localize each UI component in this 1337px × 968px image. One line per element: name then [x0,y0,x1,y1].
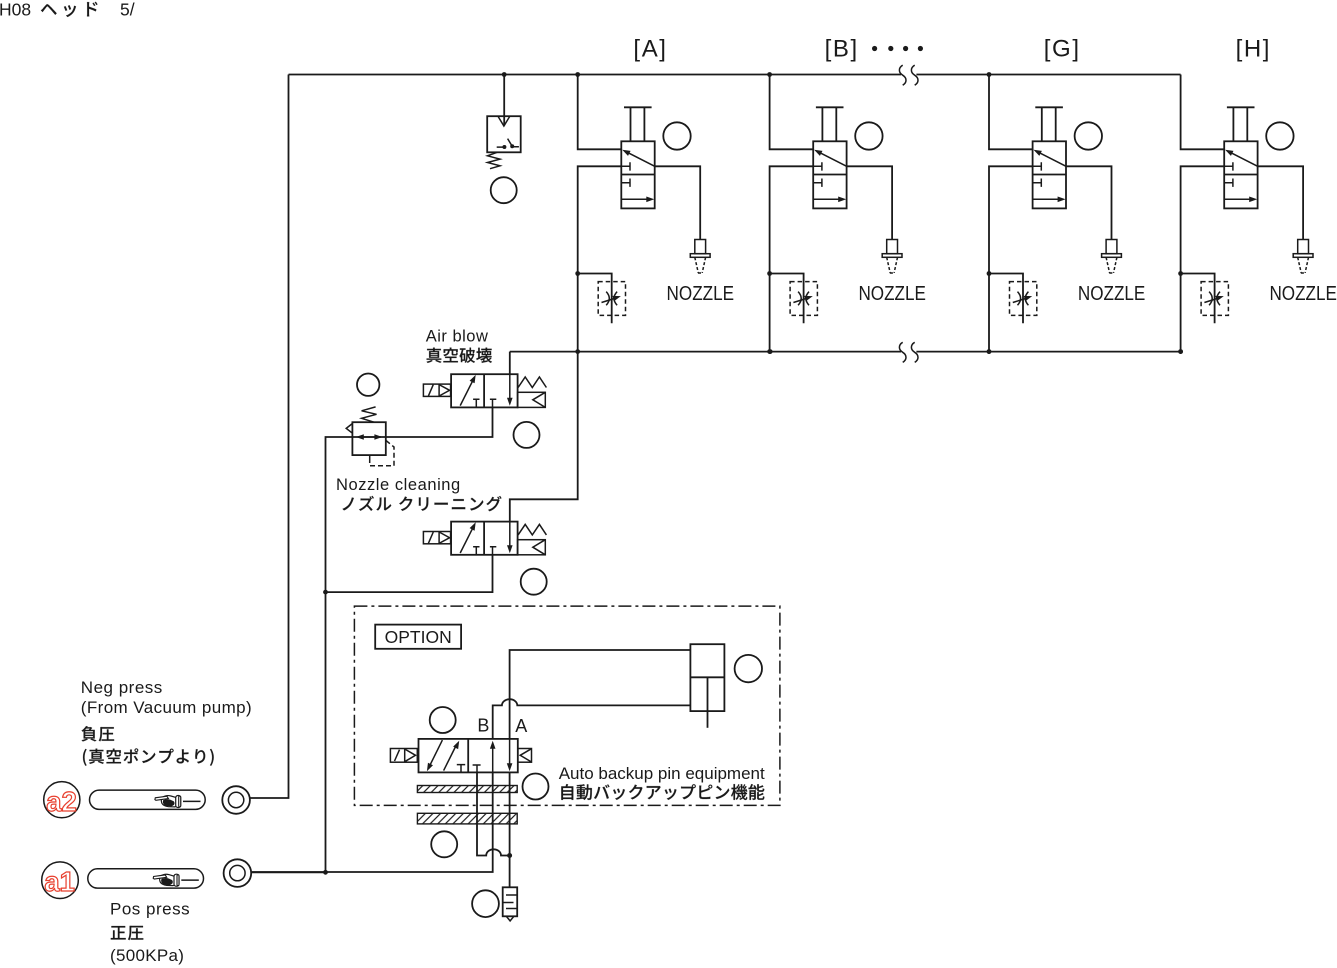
svg-text:[H]: [H] [1236,36,1271,63]
svg-text:a2: a2 [46,786,77,817]
svg-text:[B]: [B] [825,36,859,63]
svg-text:(From Vacuum pump): (From Vacuum pump) [81,698,252,717]
svg-text:a1: a1 [44,866,75,897]
svg-text:B: B [477,716,489,736]
svg-text:Neg press: Neg press [81,678,163,697]
svg-text:A: A [515,716,527,736]
svg-text:(500KPa): (500KPa) [110,946,184,965]
svg-text:Air blow: Air blow [426,328,489,346]
svg-text:Auto backup pin equipment: Auto backup pin equipment [559,764,765,783]
svg-text:Pos press: Pos press [110,900,190,919]
svg-text:[A]: [A] [633,36,667,63]
svg-text:Nozzle cleaning: Nozzle cleaning [336,476,461,494]
svg-text:OPTION: OPTION [385,627,452,647]
svg-text:[G]: [G] [1044,36,1081,63]
